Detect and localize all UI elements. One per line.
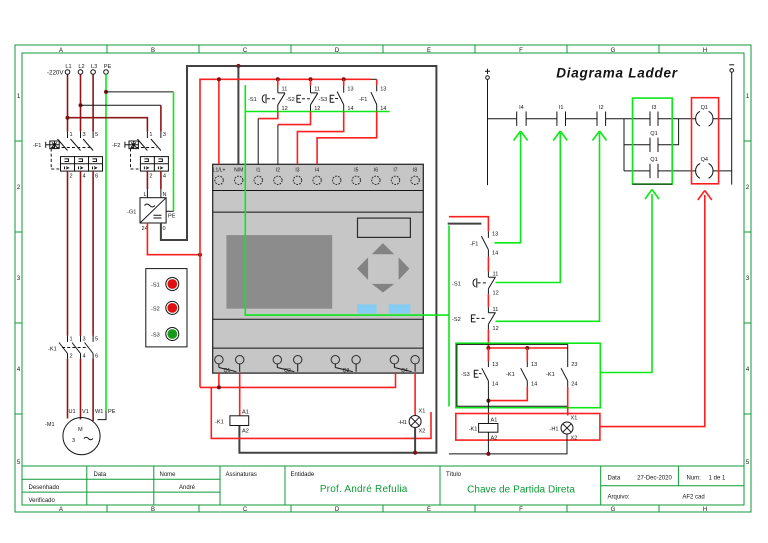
node H1 return [413, 451, 417, 455]
svg-text:Desenhado: Desenhado [29, 485, 60, 491]
PLC body [213, 164, 424, 373]
green sensor net vertical through PLC [245, 85, 449, 315]
svg-text:I5: I5 [354, 168, 358, 174]
svg-text:Q4: Q4 [401, 368, 408, 374]
F2 pin labels [149, 132, 166, 180]
svg-text:-K1: -K1 [506, 372, 515, 378]
svg-text:I2: I2 [599, 105, 604, 111]
green arrow I1 line [496, 133, 561, 283]
svg-text:6: 6 [95, 354, 98, 360]
wire S1.12 to I1 [258, 112, 278, 119]
PLC nav keys [357, 243, 409, 292]
ladder minus terminal [729, 64, 734, 66]
svg-text:0: 0 [163, 226, 166, 232]
svg-text:-F1: -F1 [470, 242, 478, 248]
svg-text:11: 11 [493, 272, 499, 278]
wire 24V feed to F1.13 [449, 217, 489, 232]
wire F2 pole2 drop [160, 105, 162, 131]
svg-text:-S1: -S1 [151, 283, 160, 289]
wire S3.14 to I3 [297, 112, 343, 165]
svg-text:E: E [427, 507, 431, 513]
svg-text:A: A [59, 507, 63, 513]
svg-text:I3: I3 [295, 168, 299, 174]
wire L1/L+ drop [218, 79, 220, 164]
svg-text:-S3: -S3 [319, 97, 328, 103]
PLC output terminals Q1 [215, 356, 420, 364]
svg-text:-H1: -H1 [398, 420, 407, 426]
svg-text:-S2: -S2 [286, 97, 295, 103]
svg-text:-F1: -F1 [33, 143, 41, 149]
ladder coil Q4 [696, 164, 713, 179]
PLC LCD screen [226, 235, 332, 309]
contact K1 aux 13/14 [506, 348, 537, 388]
F2 pole blades [137, 139, 161, 151]
svg-text:1: 1 [149, 132, 152, 138]
wire F1.14 to I4 [317, 112, 377, 165]
svg-text:Diagrama Ladder: Diagrama Ladder [556, 66, 678, 81]
svg-text:Prof. André Refulia: Prof. André Refulia [320, 484, 408, 495]
svg-text:Q1: Q1 [650, 157, 657, 163]
power supply G1 [127, 192, 167, 232]
svg-text:13: 13 [492, 232, 498, 238]
contactor K1 power contacts [48, 336, 98, 360]
breaker F2 [112, 132, 168, 180]
svg-text:C: C [243, 48, 248, 54]
svg-text:1: 1 [70, 132, 73, 138]
svg-text:2: 2 [70, 174, 73, 180]
green arrow I2 line [496, 133, 600, 321]
pushbutton S1 (red) [166, 278, 179, 291]
frame row numbers right [746, 94, 750, 466]
svg-text:27-Dec-2020: 27-Dec-2020 [637, 476, 672, 482]
ladder branch Q1 low [624, 170, 732, 172]
svg-text:Chave de Partida Direta: Chave de Partida Direta [467, 484, 575, 495]
F2 actuator dashed drop [131, 149, 139, 170]
svg-text:3: 3 [83, 132, 86, 138]
svg-text:1: 1 [70, 337, 73, 343]
svg-text:A2: A2 [491, 436, 498, 442]
F1 actuator box [50, 141, 59, 149]
svg-text:W1: W1 [95, 409, 103, 415]
svg-text:-K1: -K1 [469, 427, 478, 433]
wire Q4 right to H1 lamp [414, 373, 416, 415]
svg-text:I7: I7 [393, 168, 397, 174]
ladder contact I2 [597, 112, 606, 126]
wire PE branch vertical green to G1 [173, 92, 175, 211]
supply terminal L3 [91, 70, 96, 75]
svg-text:L1/L+: L1/L+ [213, 168, 226, 174]
svg-text:L3: L3 [91, 64, 97, 70]
wire PE to motor [98, 411, 107, 420]
svg-text:X1: X1 [419, 409, 426, 415]
wire K1.4 to motor V1 [80, 359, 82, 420]
green arrow I4 line [495, 133, 521, 243]
svg-text:1 de 1: 1 de 1 [709, 476, 726, 482]
F2 actuator handle [125, 142, 129, 148]
svg-text:14: 14 [492, 382, 498, 388]
wire K1.2 to motor U1 [67, 359, 69, 419]
frame column letters top [59, 48, 707, 54]
lamp H1 [409, 416, 421, 428]
wire L1 down to F1 pole1 [67, 74, 69, 131]
ladder contact Q1 low [650, 164, 658, 178]
ladder red coil box [692, 98, 719, 184]
wire coil A2 to 0V [487, 432, 489, 454]
svg-text:Entidade: Entidade [291, 472, 315, 478]
contact S2 chain (NC) [452, 307, 499, 332]
svg-text:A: A [59, 48, 63, 54]
svg-text:-S1: -S1 [452, 282, 461, 288]
svg-text:U1: U1 [69, 409, 76, 415]
node S1 tap [276, 77, 280, 81]
svg-text:I3: I3 [652, 105, 657, 111]
F1 linkage dashes [51, 147, 90, 149]
PLC band line [213, 211, 424, 213]
PLC input terminals [215, 176, 419, 184]
svg-text:F: F [519, 48, 523, 54]
svg-text:Nome: Nome [160, 472, 177, 478]
svg-text:I4: I4 [519, 105, 524, 111]
svg-text:A1: A1 [491, 418, 498, 424]
contactor coil K1 [230, 416, 249, 426]
F1 pole stubs [68, 132, 94, 138]
svg-text:-S2: -S2 [452, 317, 461, 323]
svg-text:X2: X2 [419, 429, 426, 435]
ladder contact Q1 mid [650, 138, 658, 152]
svg-text:2: 2 [70, 354, 73, 360]
group state box stub [600, 372, 604, 374]
lamp H1 chain [561, 422, 573, 434]
svg-text:F: F [519, 507, 523, 513]
wire L1 jumper to F2 pole1 (dark red) [68, 118, 148, 132]
node bus junction G1 [198, 253, 202, 257]
svg-text:M: M [78, 427, 83, 433]
drawing frame inner border [22, 53, 744, 505]
green sensor net horizontal [245, 111, 389, 113]
svg-text:L1: L1 [65, 64, 71, 70]
svg-text:-S1: -S1 [248, 97, 257, 103]
svg-text:4: 4 [83, 354, 86, 360]
K1 linkage dashes [62, 347, 88, 349]
svg-text:AF2 cad: AF2 cad [682, 495, 704, 501]
svg-text:Data: Data [94, 472, 107, 478]
S1 actuator mushroom [262, 95, 265, 103]
svg-text:N/M: N/M [234, 168, 243, 174]
F2 actuator box [129, 141, 138, 149]
ladder branch Q1 mid [624, 119, 679, 145]
wire S2.12 down to group [487, 330, 489, 348]
S2 chain actuator E [471, 315, 475, 323]
node group S3 [486, 346, 490, 350]
node L1 junction [66, 116, 70, 120]
PLC output labels [224, 368, 408, 374]
pushbutton panel box [146, 269, 187, 347]
svg-text:G: G [611, 507, 616, 513]
svg-text:13: 13 [531, 362, 537, 368]
svg-text:I2: I2 [276, 168, 280, 174]
svg-text:23: 23 [571, 362, 577, 368]
group inner black box [457, 344, 568, 406]
svg-text:-K1: -K1 [215, 420, 224, 426]
wire S3 bottom down to coil [487, 387, 489, 424]
wire F1.2 to K1.1 [67, 171, 69, 336]
svg-text:5: 5 [95, 132, 98, 138]
pushbutton S3 (green) [166, 328, 179, 341]
contact F1 aux (NO) [359, 79, 386, 112]
svg-text:11: 11 [314, 87, 320, 93]
svg-text:4: 4 [83, 174, 86, 180]
wire S2.12 to I2 [278, 112, 311, 125]
svg-text:3: 3 [72, 438, 75, 444]
svg-text:B: B [151, 48, 155, 54]
supply terminal PE [104, 70, 109, 75]
wire K1.6 to motor W1 [92, 359, 94, 421]
F1 pin labels [70, 132, 99, 180]
contact S3 chain (NO) [461, 348, 498, 388]
svg-text:X1: X1 [571, 416, 578, 422]
svg-text:-S3: -S3 [461, 372, 470, 378]
svg-text:I1: I1 [559, 105, 564, 111]
svg-text:Q1: Q1 [224, 368, 231, 374]
svg-text:13: 13 [347, 87, 353, 93]
svg-text:I8: I8 [413, 168, 417, 174]
K1 bottom stubs [68, 354, 94, 359]
wire K1b.24 down to lamp [567, 387, 569, 416]
S1 chain actuator [473, 279, 476, 287]
F2 trip boxes [140, 157, 168, 172]
svg-text:C: C [243, 507, 248, 513]
wire S1.12 to S2.11 [487, 294, 489, 307]
svg-text:-K1: -K1 [546, 372, 555, 378]
supply terminal L2 [78, 70, 83, 75]
frame row numbers left [17, 94, 21, 466]
wire Q1 right to K1 coil [239, 373, 241, 416]
node S2 tap [309, 77, 313, 81]
svg-text:A2: A2 [242, 429, 249, 435]
svg-text:Arquivo:: Arquivo: [608, 495, 630, 501]
wire state stub gray [448, 223, 482, 225]
K1 blades [59, 343, 93, 354]
node L1/L+ tap [217, 77, 221, 81]
svg-text:PE: PE [168, 214, 176, 220]
svg-text:-S2: -S2 [151, 306, 160, 312]
PLC relay contact Q1 [219, 364, 415, 372]
svg-text:Num:: Num: [687, 476, 702, 482]
red state frame left [211, 387, 431, 438]
svg-text:-H1: -H1 [550, 427, 559, 433]
contact S2 (NC emergency) [286, 79, 320, 112]
svg-text:3: 3 [163, 132, 166, 138]
frame column letters bottom [59, 507, 707, 513]
title block entries [179, 476, 726, 501]
group state box green [456, 343, 600, 408]
svg-text:E: E [427, 48, 431, 54]
wire G1.24 red to bus [147, 223, 200, 255]
ladder branch vertical [623, 119, 625, 171]
svg-text:Q1: Q1 [650, 131, 657, 137]
svg-text:L2: L2 [78, 64, 84, 70]
motor M1 [45, 409, 116, 455]
wire G1 PE stub [166, 210, 173, 212]
wire L3 down to F1 pole3 [92, 74, 94, 131]
node S3 tap [342, 77, 346, 81]
supply terminal L1 [65, 70, 70, 75]
wire G1.0 return loop around PLC [161, 66, 437, 453]
svg-text:11: 11 [282, 87, 288, 93]
node N/M tap [236, 64, 240, 68]
wire black to F1 contact corner [371, 78, 377, 80]
svg-text:13: 13 [492, 362, 498, 368]
wire F2.4 to G1.N [160, 171, 162, 189]
svg-text:14: 14 [492, 251, 498, 257]
F1 trip boxes [61, 157, 103, 172]
svg-text:-S3: -S3 [151, 333, 160, 339]
svg-text:-K1: -K1 [48, 347, 57, 353]
ladder contact I4 [517, 112, 526, 126]
green arrow I3 line [604, 194, 652, 373]
svg-text:Assinaturas: Assinaturas [226, 472, 257, 478]
title block grid [22, 466, 744, 505]
wire Q1 left drop [218, 373, 220, 387]
coil row state box red [456, 414, 600, 441]
group feed rail red [488, 347, 567, 349]
ladder group box black bottom [633, 183, 673, 185]
contact S1 (NC pushbutton) [248, 79, 288, 112]
svg-text:D: D [335, 507, 340, 513]
wire H1.X2 down [414, 428, 416, 453]
red arrow head [698, 191, 712, 201]
svg-text:Q1: Q1 [701, 105, 708, 111]
pushbutton S2 (red) [166, 301, 179, 314]
svg-text:-220V: -220V [47, 70, 64, 77]
contact S3 (NO pushbutton) [319, 79, 354, 112]
svg-text:13: 13 [380, 87, 386, 93]
svg-text:Data: Data [608, 476, 621, 482]
ladder contact I1 [557, 112, 566, 126]
title block labels [29, 472, 702, 504]
svg-text:H: H [703, 507, 707, 513]
svg-text:V1: V1 [82, 409, 89, 415]
svg-text:A1: A1 [242, 410, 249, 416]
ladder rung main [488, 118, 732, 120]
svg-text:12: 12 [493, 326, 499, 332]
wire L2 down to F1 pole2 [80, 74, 82, 131]
K1 top stubs [68, 336, 94, 342]
breaker F1 [33, 132, 103, 180]
ladder contact I3 [650, 112, 658, 126]
F1 actuator dashed drop [51, 149, 59, 170]
PLC display window [358, 218, 411, 237]
wire F1.4 to K1.3 [80, 171, 82, 336]
wire L2 jumper to F2 pole2 (black) [81, 104, 161, 106]
F1 pole blades [58, 139, 94, 151]
svg-text:5: 5 [95, 337, 98, 343]
wire K1a.14 to S3.14 [488, 387, 527, 401]
svg-text:-F1: -F1 [359, 97, 367, 103]
ladder green group box [633, 98, 673, 184]
wire red bus vertical [200, 79, 371, 387]
wire N/M drop [237, 66, 239, 164]
svg-text:11: 11 [493, 307, 499, 313]
svg-text:2: 2 [149, 174, 152, 180]
contact F1 aux chain (NO) [470, 231, 498, 257]
svg-text:PE: PE [108, 409, 116, 415]
svg-text:G: G [611, 48, 616, 54]
wire PE down (green) [105, 74, 107, 411]
node chain return [486, 452, 490, 456]
svg-text:Título: Título [446, 472, 462, 478]
green sensor net right vertical [448, 225, 450, 406]
S2 actuator E [297, 95, 301, 103]
PLC output strip top line [213, 347, 424, 349]
F1 actuator handle [46, 142, 50, 148]
svg-text:-F2: -F2 [112, 143, 120, 149]
PLC blue keys [357, 304, 376, 313]
node Q1 feed [217, 385, 221, 389]
ladder plus terminal [485, 69, 490, 74]
ladder coil Q1 [696, 111, 713, 126]
svg-text:3: 3 [83, 337, 86, 343]
svg-text:-G1: -G1 [127, 210, 136, 216]
svg-text:D: D [335, 48, 340, 54]
S3 actuator E [330, 95, 334, 103]
svg-text:X2: X2 [571, 436, 578, 442]
wire F1.14 to S1.11 [487, 257, 489, 272]
svg-text:I4: I4 [315, 168, 319, 174]
node PE junction [104, 90, 108, 94]
svg-text:Verificado: Verificado [29, 498, 56, 504]
svg-text:L: L [144, 192, 147, 198]
svg-text:24: 24 [571, 382, 577, 388]
svg-text:H: H [703, 48, 707, 54]
contactor coil K1 chain [479, 424, 498, 433]
svg-text:PE: PE [104, 64, 112, 70]
node group K1a [525, 346, 529, 350]
svg-text:4: 4 [163, 174, 166, 180]
svg-text:B: B [151, 507, 155, 513]
wire F2.2 to G1.L [146, 171, 148, 189]
svg-text:N: N [163, 192, 167, 198]
svg-text:I1: I1 [256, 168, 260, 174]
PLC input labels [213, 168, 418, 174]
wire 0V rail chain [449, 434, 567, 454]
svg-text:-M1: -M1 [45, 422, 55, 428]
svg-text:André: André [179, 485, 196, 491]
coil row stub to arrow [600, 195, 705, 427]
svg-text:I6: I6 [374, 168, 378, 174]
node group bottom [486, 399, 490, 403]
PLC mid bottom line [213, 318, 424, 320]
supply labels [65, 64, 111, 70]
ladder left rail [487, 79, 489, 185]
F2 linkage dashes [131, 147, 158, 149]
ladder right rail [731, 72, 733, 184]
svg-text:Q4: Q4 [701, 157, 708, 163]
wire F1.6 to K1.5 [92, 171, 94, 336]
PLC terminal strip line [213, 190, 424, 192]
wire PE branch to G1 (black horizontal) [106, 91, 174, 93]
node L2 junction [79, 103, 83, 107]
svg-text:6: 6 [95, 174, 98, 180]
svg-text:14: 14 [531, 382, 537, 388]
wire Q feed bus bottom [200, 373, 396, 387]
contact K1 aux 23/24 [546, 344, 578, 387]
F2 pole stubs [147, 132, 161, 138]
svg-text:12: 12 [493, 291, 499, 297]
K1 pin labels [70, 337, 99, 360]
svg-text:Q3: Q3 [343, 368, 350, 374]
svg-text:Q2: Q2 [284, 368, 291, 374]
